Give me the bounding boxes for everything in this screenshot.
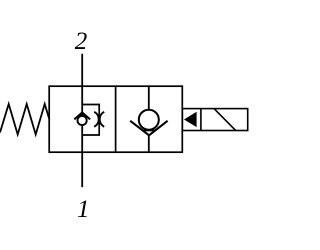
check valve CV1 seat	[74, 112, 90, 119]
valve body (two-position envelope)	[49, 86, 182, 152]
spring return	[0, 104, 49, 135]
solenoid divider	[200, 109, 202, 131]
svg-text:1: 1	[77, 196, 90, 223]
check valve CV1 ball	[78, 116, 87, 125]
valve position divider	[115, 86, 117, 152]
wire: port 1 line	[81, 152, 83, 187]
solenoid actuator box	[182, 109, 247, 131]
svg-text:2: 2	[75, 28, 88, 55]
solenoid arrow triangle	[184, 112, 197, 127]
solenoid coil diagonal	[214, 109, 236, 131]
wire: main flow line, right position	[148, 86, 150, 152]
check valve CV2 seat	[130, 121, 167, 136]
throttle orifice	[94, 112, 104, 127]
check valve CV2 seat chord	[144, 129, 155, 131]
wire: port 2 line	[81, 54, 83, 86]
wire: main flow line, left position	[81, 86, 83, 152]
check valve CV2 ball	[139, 110, 159, 130]
check valve CV1 seat triangle	[80, 112, 85, 115]
wire: bypass loop, left position	[82, 105, 99, 136]
